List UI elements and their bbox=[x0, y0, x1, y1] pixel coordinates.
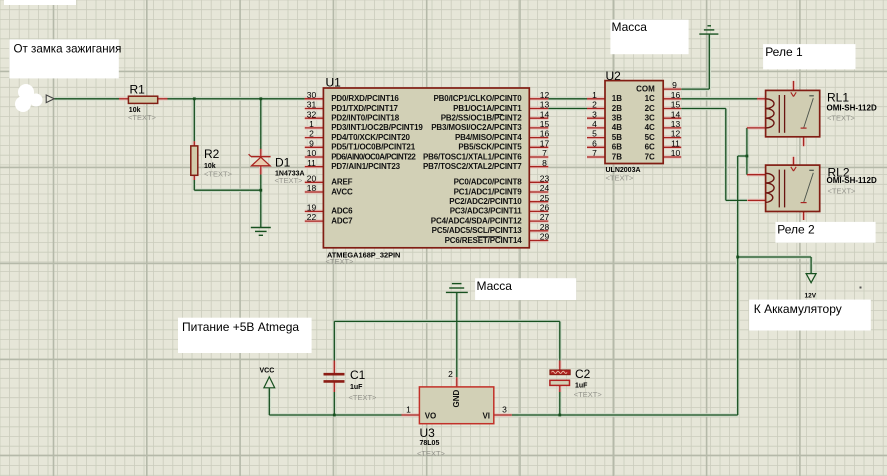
svg-text:PD2/INT0/PCINT18: PD2/INT0/PCINT18 bbox=[331, 114, 400, 123]
svg-text:VCC: VCC bbox=[260, 368, 275, 375]
svg-text:11: 11 bbox=[671, 138, 680, 148]
svg-text:10: 10 bbox=[307, 148, 317, 158]
svg-text:PB3/MOSI/OC2A/PCINT3: PB3/MOSI/OC2A/PCINT3 bbox=[431, 123, 522, 132]
svg-text:7C: 7C bbox=[645, 152, 655, 161]
svg-text:7: 7 bbox=[542, 148, 547, 158]
svg-text:4C: 4C bbox=[645, 123, 655, 132]
svg-text:Реле 2: Реле 2 bbox=[777, 223, 815, 237]
svg-text:13: 13 bbox=[540, 100, 550, 110]
svg-text:GND: GND bbox=[452, 390, 461, 408]
svg-text:<TEXT>: <TEXT> bbox=[204, 170, 233, 179]
svg-text:20: 20 bbox=[307, 173, 317, 183]
svg-text:C2: C2 bbox=[575, 367, 591, 381]
svg-text:22: 22 bbox=[307, 212, 317, 222]
svg-text:7: 7 bbox=[592, 148, 597, 158]
svg-text:PD1/TXD/PCINT17: PD1/TXD/PCINT17 bbox=[331, 104, 398, 113]
svg-text:К Аккамулятору: К Аккамулятору bbox=[754, 302, 842, 316]
svg-text:3B: 3B bbox=[612, 114, 622, 123]
svg-text:15: 15 bbox=[540, 119, 550, 129]
svg-text:VO: VO bbox=[425, 412, 437, 421]
svg-text:<TEXT>: <TEXT> bbox=[574, 390, 603, 399]
svg-text:<TEXT>: <TEXT> bbox=[606, 173, 635, 182]
svg-text:6C: 6C bbox=[645, 143, 655, 152]
svg-text:1: 1 bbox=[592, 90, 597, 100]
svg-text:31: 31 bbox=[307, 100, 317, 110]
svg-text:<TEXT>: <TEXT> bbox=[349, 393, 378, 402]
svg-text:PD0/RXD/PCINT16: PD0/RXD/PCINT16 bbox=[331, 94, 399, 103]
svg-text:PB5/SCK/PCINT5: PB5/SCK/PCINT5 bbox=[458, 143, 522, 152]
svg-text:3C: 3C bbox=[645, 114, 655, 123]
svg-text:17: 17 bbox=[540, 138, 550, 148]
svg-text:2: 2 bbox=[309, 129, 314, 139]
svg-text:14: 14 bbox=[671, 109, 681, 119]
svg-text:12V: 12V bbox=[805, 293, 817, 300]
svg-text:12: 12 bbox=[540, 90, 550, 100]
svg-text:VI: VI bbox=[482, 412, 490, 421]
svg-text:4: 4 bbox=[592, 119, 597, 129]
svg-text:11: 11 bbox=[307, 158, 316, 168]
svg-text:AVCC: AVCC bbox=[331, 187, 353, 196]
svg-text:13: 13 bbox=[671, 119, 681, 129]
svg-text:PC3/ADC3/PCINT11: PC3/ADC3/PCINT11 bbox=[450, 207, 523, 216]
svg-text:PC4/ADC4/SDA/PCINT12: PC4/ADC4/SDA/PCINT12 bbox=[431, 216, 523, 225]
svg-text:OMI-SH-112D: OMI-SH-112D bbox=[827, 176, 877, 185]
svg-text:OMI-SH-112D: OMI-SH-112D bbox=[827, 104, 877, 113]
svg-text:Масса: Масса bbox=[612, 20, 648, 34]
svg-text:PB6/TOSC1/XTAL1/PCINT6: PB6/TOSC1/XTAL1/PCINT6 bbox=[423, 152, 522, 161]
svg-text:ADC7: ADC7 bbox=[331, 216, 353, 225]
svg-text:23: 23 bbox=[540, 173, 550, 183]
svg-text:3: 3 bbox=[592, 109, 597, 119]
svg-text:7B: 7B bbox=[612, 152, 622, 161]
svg-text:PC2/ADC2/PCINT10: PC2/ADC2/PCINT10 bbox=[449, 197, 522, 206]
svg-text:U1: U1 bbox=[326, 76, 342, 90]
svg-text:ADC6: ADC6 bbox=[331, 207, 353, 216]
svg-text:1B: 1B bbox=[612, 94, 622, 103]
svg-text:<TEXT>: <TEXT> bbox=[275, 176, 304, 185]
svg-text:<TEXT>: <TEXT> bbox=[828, 186, 857, 195]
svg-text:U3: U3 bbox=[420, 426, 436, 440]
svg-text:R1: R1 bbox=[130, 83, 146, 97]
svg-text:26: 26 bbox=[540, 203, 550, 213]
svg-text:PD4/T0/XCK/PCINT20: PD4/T0/XCK/PCINT20 bbox=[331, 133, 410, 142]
svg-text:PC1/ADC1/PCINT9: PC1/ADC1/PCINT9 bbox=[454, 187, 523, 196]
svg-text:PD5/T1/OC0B/PCINT21: PD5/T1/OC0B/PCINT21 bbox=[331, 143, 416, 152]
svg-text:Масса: Масса bbox=[477, 279, 513, 293]
svg-text:78L05: 78L05 bbox=[420, 440, 440, 447]
svg-text:9: 9 bbox=[672, 80, 677, 90]
svg-text:32: 32 bbox=[307, 109, 317, 119]
svg-text:5C: 5C bbox=[645, 133, 655, 142]
svg-text:1C: 1C bbox=[645, 94, 655, 103]
svg-text:27: 27 bbox=[540, 212, 550, 222]
svg-text:5: 5 bbox=[592, 129, 597, 139]
svg-text:25: 25 bbox=[540, 193, 550, 203]
svg-text:19: 19 bbox=[307, 203, 317, 213]
svg-text:PB2/SS/OC1B/PCINT2: PB2/SS/OC1B/PCINT2 bbox=[441, 114, 523, 123]
svg-text:12: 12 bbox=[671, 129, 681, 139]
svg-text:AREF: AREF bbox=[331, 178, 352, 187]
svg-text:6: 6 bbox=[592, 138, 597, 148]
svg-text:18: 18 bbox=[307, 183, 317, 193]
svg-text:6B: 6B bbox=[612, 143, 622, 152]
svg-text:30: 30 bbox=[307, 90, 317, 100]
svg-text:8: 8 bbox=[542, 158, 547, 168]
svg-text:<TEXT>: <TEXT> bbox=[326, 257, 355, 266]
svg-text:24: 24 bbox=[540, 183, 550, 193]
svg-text:2: 2 bbox=[592, 100, 597, 110]
svg-text:C1: C1 bbox=[350, 368, 366, 382]
svg-text:2: 2 bbox=[448, 369, 453, 379]
svg-text:PD3/INT1/OC2B/PCINT19: PD3/INT1/OC2B/PCINT19 bbox=[331, 123, 423, 132]
svg-text:1uF: 1uF bbox=[575, 383, 588, 390]
svg-text:1: 1 bbox=[309, 119, 314, 129]
svg-text:Питание +5В Atmega: Питание +5В Atmega bbox=[182, 320, 299, 334]
svg-text:D1: D1 bbox=[275, 156, 291, 170]
svg-text:4B: 4B bbox=[612, 123, 622, 132]
svg-text:PC6/RESET/PCINT14: PC6/RESET/PCINT14 bbox=[445, 236, 523, 245]
svg-text:29: 29 bbox=[540, 232, 550, 242]
svg-text:PB1/OC1A/PCINT1: PB1/OC1A/PCINT1 bbox=[453, 104, 522, 113]
svg-text:<TEXT>: <TEXT> bbox=[128, 113, 157, 122]
svg-text:PB0/ICP1/CLKO/PCINT0: PB0/ICP1/CLKO/PCINT0 bbox=[433, 94, 522, 103]
svg-text:28: 28 bbox=[540, 222, 550, 232]
svg-text:15: 15 bbox=[671, 100, 681, 110]
svg-text:14: 14 bbox=[540, 109, 550, 119]
svg-text:10: 10 bbox=[671, 148, 681, 158]
svg-text:PB7/TOSC2/XTAL2/PCINT7: PB7/TOSC2/XTAL2/PCINT7 bbox=[423, 162, 522, 171]
svg-text:От замка зажигания: От замка зажигания bbox=[14, 43, 122, 56]
svg-text:RL1: RL1 bbox=[827, 91, 849, 105]
svg-text:16: 16 bbox=[540, 129, 550, 139]
svg-text:COM: COM bbox=[636, 84, 655, 93]
svg-text:PC0/ADC0/PCINT8: PC0/ADC0/PCINT8 bbox=[454, 178, 523, 187]
svg-text:<TEXT>: <TEXT> bbox=[827, 114, 856, 123]
svg-text:PD6/AIN0/OC0A/PCINT22: PD6/AIN0/OC0A/PCINT22 bbox=[331, 152, 416, 161]
svg-text:1uF: 1uF bbox=[350, 384, 363, 391]
svg-text:1: 1 bbox=[406, 404, 411, 414]
svg-text:3: 3 bbox=[502, 404, 507, 414]
svg-text:9: 9 bbox=[309, 138, 314, 148]
svg-text:PB4/MISO/PCINT4: PB4/MISO/PCINT4 bbox=[455, 133, 522, 142]
svg-text:R2: R2 bbox=[204, 147, 220, 161]
svg-text:<TEXT>: <TEXT> bbox=[417, 449, 446, 458]
svg-text:2B: 2B bbox=[612, 104, 622, 113]
svg-text:16: 16 bbox=[671, 90, 681, 100]
svg-text:PC5/ADC5/SCL/PCINT13: PC5/ADC5/SCL/PCINT13 bbox=[432, 226, 523, 235]
svg-text:2C: 2C bbox=[645, 104, 655, 113]
svg-text:U2: U2 bbox=[606, 69, 622, 83]
svg-text:5B: 5B bbox=[612, 133, 622, 142]
svg-text:PD7/AIN1/PCINT23: PD7/AIN1/PCINT23 bbox=[331, 162, 400, 171]
svg-text:Реле 1: Реле 1 bbox=[765, 45, 803, 59]
